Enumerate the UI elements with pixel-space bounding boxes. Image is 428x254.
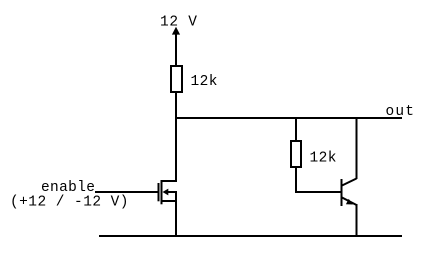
ground rail wire (99, 235, 402, 237)
transistor Q2 npn base bar (341, 179, 343, 206)
transistor Q2 emitter diagonal (342, 198, 357, 206)
wire R2 to Q2 base (295, 191, 341, 193)
wire enable to Q1 gate (95, 191, 158, 193)
transistor Q1 channel bar (161, 180, 163, 204)
resistor R2 body (291, 141, 301, 167)
svg-text:12 V: 12 V (160, 15, 197, 31)
wire Q2 emitter to ground rail (356, 204, 358, 236)
wire R2 bottom (295, 167, 297, 193)
svg-text:12k: 12k (191, 74, 218, 90)
wire Q2 collector to out node (356, 117, 358, 179)
svg-text:12k: 12k (310, 150, 337, 166)
transistor Q1 body arrow (163, 189, 169, 196)
transistor Q2 collector diagonal (342, 179, 357, 186)
transistor Q1 source stub (162, 200, 177, 202)
transistor Q1 nmos gate bar (158, 183, 160, 201)
wire out node to Q1 drain (175, 117, 177, 182)
svg-text:(+12 / -12 V): (+12 / -12 V) (10, 195, 129, 211)
resistor R1 body (171, 66, 182, 92)
wire arrow to resistor R1 (175, 30, 177, 66)
power supply arrow symbol (172, 27, 180, 35)
svg-text:enable: enable (41, 180, 95, 196)
wire R1 bottom to out node (175, 92, 177, 119)
transistor Q2 emitter arrow (346, 199, 353, 205)
node out horizontal wire (175, 117, 402, 119)
wire out node to resistor R2 (295, 117, 297, 141)
transistor Q1 body stub (166, 191, 177, 193)
transistor Q1 drain stub (162, 180, 177, 182)
svg-text:out: out (386, 104, 415, 120)
wire Q1 source to ground rail (175, 191, 177, 236)
